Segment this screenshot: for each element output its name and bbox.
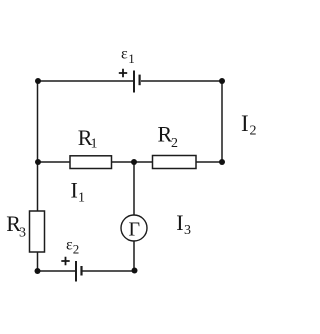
svg-text:2: 2 bbox=[73, 242, 80, 257]
svg-text:I: I bbox=[176, 210, 183, 235]
svg-text:3: 3 bbox=[19, 226, 26, 241]
svg-text:1: 1 bbox=[128, 51, 135, 66]
svg-text:Γ: Γ bbox=[129, 218, 141, 240]
svg-text:2: 2 bbox=[250, 124, 257, 139]
svg-text:ε: ε bbox=[121, 46, 128, 63]
svg-text:3: 3 bbox=[184, 223, 191, 238]
svg-text:I: I bbox=[241, 111, 249, 136]
svg-text:I: I bbox=[71, 178, 78, 203]
svg-text:1: 1 bbox=[78, 191, 85, 206]
svg-text:2: 2 bbox=[171, 136, 178, 151]
svg-text:1: 1 bbox=[91, 137, 98, 152]
